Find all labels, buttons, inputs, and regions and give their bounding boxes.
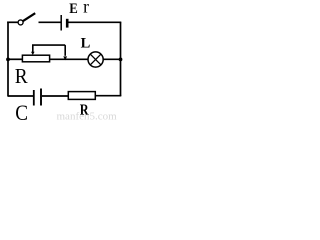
wire battery to top-right corner xyxy=(69,21,122,23)
svg-text:R: R xyxy=(15,65,28,88)
resistor R body xyxy=(68,92,95,100)
battery E long plate xyxy=(60,15,62,31)
capacitor C right plate xyxy=(40,89,42,106)
wire top-left horizontal xyxy=(7,21,18,23)
node junction right xyxy=(119,58,123,62)
wire resistor to right vertical xyxy=(95,95,121,97)
wire middle row left xyxy=(8,58,23,60)
wire rheostat to lamp xyxy=(50,58,89,60)
rheostat R body xyxy=(22,55,49,62)
rheostat wiper loop xyxy=(32,45,65,56)
wire bottom-left to capacitor xyxy=(8,95,33,97)
svg-text:r: r xyxy=(83,0,89,16)
wire capacitor to resistor xyxy=(42,95,68,97)
node junction left xyxy=(6,58,10,62)
battery E short plate xyxy=(66,19,69,28)
rheostat wiper arrowhead onto body xyxy=(31,52,35,55)
wire right vertical xyxy=(120,22,122,96)
svg-text:L: L xyxy=(81,36,91,52)
svg-text:manfen5.com: manfen5.com xyxy=(57,111,118,122)
wire left vertical xyxy=(7,22,9,97)
wire lamp to right vertical xyxy=(103,58,121,60)
switch S contact circle xyxy=(18,20,23,25)
wiper loop arrowhead onto wire xyxy=(63,56,67,60)
svg-text:E: E xyxy=(69,0,78,16)
lamp L circle xyxy=(88,52,103,67)
switch S lever xyxy=(23,13,35,21)
lamp L cross xyxy=(90,54,101,65)
svg-text:C: C xyxy=(15,100,28,121)
wire switch to battery xyxy=(39,21,61,23)
capacitor C left plate xyxy=(33,90,35,106)
